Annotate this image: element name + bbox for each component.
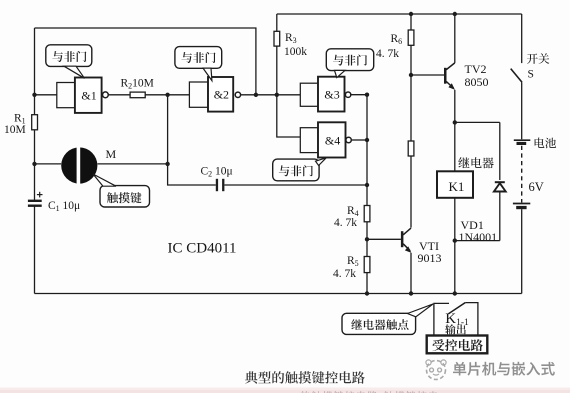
relay contact K1-1 left lead bbox=[434, 303, 449, 335]
watermark text 单片机与嵌入式 bbox=[453, 362, 555, 376]
wire C2 to gate output column bbox=[224, 184, 367, 186]
nand gate U1 &1 bbox=[75, 78, 108, 113]
wire R7 to VT1 collector bbox=[410, 156, 412, 228]
touch key plate M (black circle with gap) bbox=[61, 146, 97, 185]
label switch 开关 bbox=[527, 53, 549, 64]
label relay 继电器 bbox=[458, 157, 493, 168]
svg-text:100k: 100k bbox=[284, 46, 307, 58]
switch S blade bbox=[511, 69, 522, 83]
resistor R3 bbox=[274, 31, 280, 46]
wire relay top horizontal bbox=[455, 121, 500, 123]
node M on left rail bbox=[32, 162, 36, 166]
nand gate U3 &3 bbox=[318, 77, 351, 112]
gate U1 &1 input tie loop bbox=[57, 83, 75, 108]
node &3 output junction bbox=[365, 93, 369, 97]
wire &2 output node bbox=[241, 94, 301, 96]
capacitor C1 polarity + bbox=[37, 192, 43, 198]
wire R3 bottom bbox=[276, 46, 278, 95]
wire R1 is inline on left rail bbox=[0, 0, 1, 1]
callout relay contact label bbox=[342, 304, 433, 335]
capacitor C2 bbox=[216, 179, 225, 191]
node TV2 collector on top rail bbox=[453, 12, 457, 16]
wire diode bottom horizontal bbox=[455, 240, 500, 242]
relay contact K1-1 blade bbox=[449, 303, 466, 314]
svg-text:C1 10μ: C1 10μ bbox=[48, 200, 80, 213]
wire left rail to touch plate bbox=[35, 163, 62, 165]
wire touch plate M to branch bbox=[97, 163, 167, 165]
wire &4 output bbox=[351, 139, 367, 141]
wire TV2 base bbox=[411, 74, 444, 76]
wire gate output column / R4 R5 column bbox=[366, 95, 368, 206]
node R6 on top rail bbox=[409, 12, 413, 16]
label 6V bbox=[529, 180, 544, 194]
gate U3 &3 input tie loop bbox=[300, 83, 318, 106]
wire battery to bottom rail bbox=[521, 209, 523, 293]
wire bottom rail ground bbox=[35, 293, 522, 295]
svg-text:9013: 9013 bbox=[418, 251, 442, 265]
wire top rail Vcc bbox=[277, 13, 522, 15]
label R4 bbox=[347, 205, 359, 218]
svg-text:1N4001: 1N4001 bbox=[459, 230, 498, 244]
node M wire junction bbox=[165, 162, 169, 166]
callout NAND label for &3 bbox=[326, 49, 373, 78]
relay contact K1-1 right lead bbox=[465, 303, 478, 336]
wire base node to R7 bbox=[410, 75, 412, 141]
callout NAND label for &1 bbox=[46, 45, 92, 79]
wire R2 to &2 input bbox=[145, 94, 189, 96]
svg-text:4. 7k: 4. 7k bbox=[334, 217, 357, 229]
wire top-left feedback (left rail to &2 output node) bbox=[35, 28, 256, 95]
node R5 bottom on rail bbox=[365, 291, 369, 295]
node C2 junction bbox=[365, 183, 369, 187]
node R3 bottom junction bbox=[275, 93, 279, 97]
svg-text:4. 7k: 4. 7k bbox=[333, 268, 356, 280]
node relay bottom junction bbox=[453, 238, 457, 242]
node &1 input on left rail bbox=[32, 93, 36, 97]
battery cell 2 bbox=[513, 204, 530, 210]
label C1 value bbox=[48, 200, 80, 213]
label VT1 bbox=[419, 239, 439, 253]
wire TV2 collector to top rail bbox=[454, 14, 456, 63]
label R5 bbox=[347, 255, 359, 268]
label R3 bbox=[285, 32, 297, 45]
label C2 value bbox=[201, 166, 233, 179]
gate U4 &4 input tie loop bbox=[300, 128, 318, 153]
watermark logo bbox=[426, 360, 446, 380]
wire &1 input from left rail bbox=[35, 94, 57, 96]
label battery 电池 bbox=[535, 138, 557, 149]
wire &3 output bbox=[351, 94, 367, 96]
wire R6 top bbox=[410, 14, 412, 30]
node feedback junction bbox=[254, 93, 258, 97]
resistor R4 bbox=[364, 206, 370, 222]
bottom strip ghost text bbox=[301, 391, 438, 393]
label R2 10M bbox=[121, 78, 154, 91]
callout NAND label for &2 bbox=[175, 47, 222, 81]
svg-text:TV2: TV2 bbox=[465, 62, 487, 76]
diode VD1 1N4001 bbox=[494, 182, 506, 191]
wire branch to &4 input bbox=[277, 95, 301, 137]
label R3 value 100k bbox=[284, 46, 307, 58]
wire VT1 base bbox=[367, 238, 401, 240]
svg-text:&2: &2 bbox=[214, 88, 229, 102]
resistor R6 bbox=[408, 30, 414, 45]
wire M-branch vertical to C2 bbox=[168, 95, 216, 185]
wire diode bottom lead bbox=[499, 192, 501, 241]
wire battery middle (dashed) bbox=[521, 146, 523, 203]
wire R6 bottom to base node bbox=[410, 45, 412, 75]
label VT1 value 9013 bbox=[418, 251, 442, 265]
transistor TV2 8050 bbox=[444, 63, 455, 90]
wire R3 top bbox=[276, 14, 278, 31]
label VD1 value 1N4001 bbox=[459, 230, 498, 244]
resistor R7 unlabeled (VT1 collector) bbox=[408, 141, 414, 156]
resistor R1 bbox=[32, 115, 38, 130]
label M bbox=[106, 147, 117, 161]
wire R4 to R5 bbox=[366, 222, 368, 257]
svg-text:C2 10μ: C2 10μ bbox=[201, 166, 233, 179]
wire R5 to bottom rail bbox=[366, 273, 368, 294]
svg-text:&3: &3 bbox=[324, 88, 339, 102]
wire relay coil top lead bbox=[454, 122, 456, 171]
wire relay coil bottom lead bbox=[454, 198, 456, 294]
title 典型的触摸键控电路 bbox=[245, 371, 365, 384]
svg-text:6V: 6V bbox=[529, 180, 544, 194]
svg-text:8050: 8050 bbox=[465, 75, 489, 89]
node VT1 base junction bbox=[365, 237, 369, 241]
wire TV2 emitter down bbox=[454, 90, 456, 123]
label R6 value bbox=[376, 48, 399, 60]
label R1 bbox=[14, 113, 26, 126]
node R2-&2 wire / M branch bbox=[165, 93, 169, 97]
node &4 output junction bbox=[365, 138, 369, 142]
nand gate U2 &2 bbox=[208, 77, 241, 112]
wire left rail bbox=[34, 28, 36, 294]
battery cell 1 bbox=[514, 140, 531, 145]
label R6 bbox=[391, 33, 403, 46]
svg-text:S: S bbox=[528, 69, 534, 81]
label K1-1 bbox=[445, 311, 469, 328]
svg-text:R210M: R210M bbox=[121, 78, 154, 91]
relay coil K1 bbox=[437, 171, 473, 198]
callout touch key label bbox=[93, 174, 150, 207]
controlled circuit box 受控电路 bbox=[427, 336, 488, 354]
label K1 bbox=[449, 179, 465, 194]
node relay lead on rail bbox=[453, 291, 457, 295]
nand gate U4 &4 bbox=[318, 122, 351, 157]
label S bbox=[528, 69, 534, 81]
callout NAND label for &4 bbox=[273, 158, 327, 181]
resistor R5 bbox=[364, 257, 370, 273]
label 受控电路 bbox=[433, 339, 484, 351]
wire diode top lead bbox=[499, 122, 501, 180]
wire VT1 emitter to rail bbox=[410, 253, 412, 294]
svg-text:4. 7k: 4. 7k bbox=[376, 48, 399, 60]
svg-text:&1: &1 bbox=[81, 89, 96, 103]
wire &1 output to R2 bbox=[108, 94, 130, 96]
label IC CD4011 bbox=[168, 241, 237, 257]
label TV2 value 8050 bbox=[465, 75, 489, 89]
node VT1 emitter on rail bbox=[409, 291, 413, 295]
label VD1 bbox=[461, 218, 484, 232]
svg-text:IC CD4011: IC CD4011 bbox=[168, 241, 237, 257]
label R1 value 10M bbox=[4, 124, 26, 136]
transistor VT1 9013 bbox=[401, 228, 412, 253]
svg-text:10M: 10M bbox=[4, 124, 26, 136]
node TV2 base junction bbox=[409, 73, 413, 77]
label output 输出 bbox=[445, 324, 466, 334]
wire switch upper lead bbox=[521, 14, 523, 63]
node TV2 emitter / relay top bbox=[453, 120, 457, 124]
label R4 value bbox=[334, 217, 357, 229]
svg-text:M: M bbox=[106, 147, 117, 161]
svg-text:&4: &4 bbox=[325, 133, 340, 147]
wire switch to battery bbox=[521, 82, 523, 139]
svg-text:K1: K1 bbox=[449, 179, 465, 194]
label R5 value bbox=[333, 268, 356, 280]
gate U2 &2 input tie loop bbox=[189, 82, 208, 107]
label TV2 bbox=[465, 62, 487, 76]
capacitor C1 bbox=[28, 200, 42, 207]
resistor R2 bbox=[130, 92, 145, 98]
